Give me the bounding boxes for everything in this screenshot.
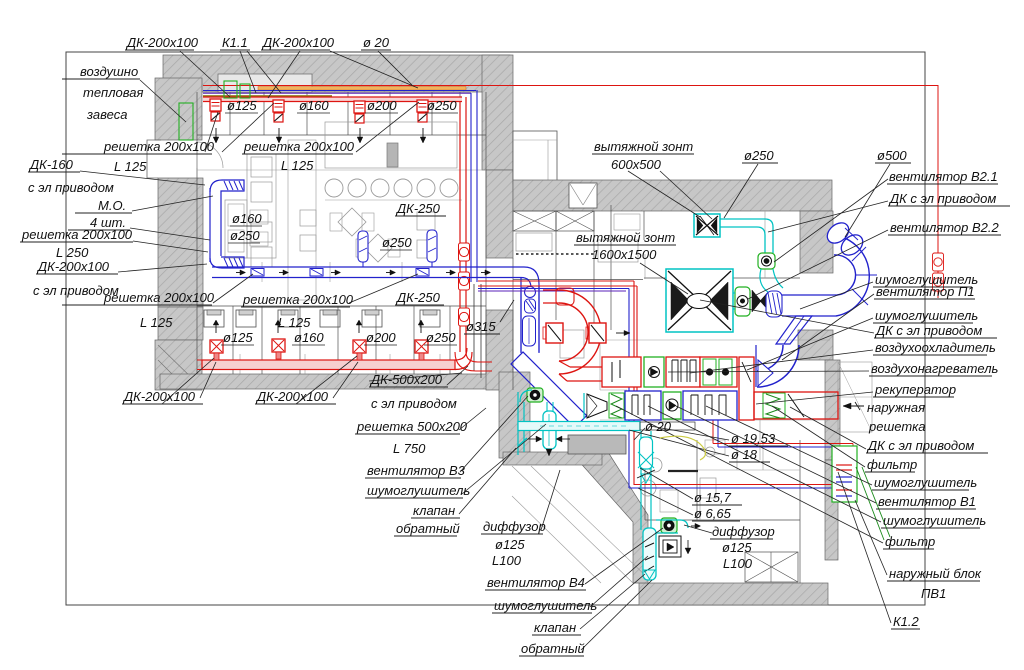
- flex hatched capsule on blue vertical duct: [525, 299, 536, 313]
- wall: door recess in right block top band: [569, 183, 597, 208]
- leader DK-500x200: [447, 366, 468, 385]
- red riser round dampers: [459, 243, 470, 261]
- check valve cyan mid: [641, 474, 651, 483]
- heat exchanger red box with fins: [666, 357, 700, 387]
- duct cyan below fan B2.1: [760, 269, 783, 292]
- svg-text:К1.2: К1.2: [893, 614, 920, 629]
- leader silencer B3: [462, 424, 546, 494]
- leader fan B3: [460, 396, 528, 472]
- recuperator red box to outside: [754, 392, 838, 419]
- wall: right wall lower1: [825, 360, 840, 460]
- svg-text:ø160: ø160: [232, 211, 262, 226]
- svg-text:шумоглушитель: шумоглушитель: [875, 308, 978, 323]
- ramp diagonal lines: [512, 466, 633, 583]
- stair cross box: [745, 552, 798, 582]
- air valve red kitchen 2: [589, 323, 606, 343]
- svg-text:М.О.: М.О.: [98, 198, 126, 213]
- blue silencer capsules on vertical duct: [523, 316, 536, 346]
- equipment room inner lines: [759, 420, 761, 460]
- duct cyan vertical to B4: [640, 431, 642, 530]
- wall: band above stairs: [503, 452, 602, 465]
- svg-text:решетка 200х100: решетка 200х100: [243, 139, 355, 154]
- svg-text:ø 15,7: ø 15,7: [694, 490, 732, 505]
- leader DK-160 to blue elbow: [80, 171, 205, 185]
- wall: bottom band of right block: [639, 583, 828, 605]
- blue silencer capsule 1: [358, 231, 368, 262]
- duct violet kitchen line: [478, 290, 626, 292]
- duct red riser right pair: [459, 101, 461, 352]
- dim ticks bottom duct: [239, 354, 241, 374]
- silencer cyan capsule mid: [640, 437, 653, 469]
- svg-text:ДК-200х100: ДК-200х100: [261, 35, 335, 50]
- pipe yellow curve: [660, 436, 706, 460]
- leader silencer B4: [590, 556, 648, 607]
- duct blue hall horizontal main: [212, 266, 524, 268]
- duct cyan wide horizontal: [518, 422, 640, 431]
- chairs around diamond tables: [330, 213, 342, 231]
- leader M.O. to duct: [132, 196, 213, 211]
- partition between hall and lower rooms: [197, 305, 486, 307]
- refrigerant lines to outdoor unit upper: [712, 420, 714, 444]
- leader valve B4 2: [581, 580, 652, 650]
- vestibule protrusion: [513, 131, 557, 184]
- air curtain green rect: [179, 103, 193, 140]
- duct blue big arc outside: [833, 235, 869, 316]
- svg-text:решетка 200х100: решетка 200х100: [242, 292, 354, 307]
- kitchen equipment rects: [516, 233, 552, 251]
- wall: bottom-left corner of left block: [155, 340, 202, 390]
- booth seating col2: [288, 140, 316, 300]
- leader DK lower right: [790, 407, 866, 449]
- lower right rooms partitions: [644, 440, 646, 520]
- air valve red kitchen 1: [546, 323, 563, 343]
- refrigerant lines to outdoor unit lower: [634, 484, 853, 486]
- duct blue branch down to fan P1: [776, 316, 812, 344]
- fan B3 green motor: [527, 388, 543, 402]
- wc fixture lower right: [648, 458, 662, 472]
- air valve red bottom 3 (o200): [353, 340, 366, 353]
- svg-text:ø 19,53: ø 19,53: [731, 431, 776, 446]
- svg-text:ДК-200х100: ДК-200х100: [255, 389, 329, 404]
- wall: stair block dark rect: [568, 435, 626, 454]
- silencer blue box 1: [625, 391, 661, 420]
- leader outdoor block: [855, 500, 887, 575]
- duct DK-200x100 red supply top horizontal: [203, 97, 462, 102]
- leaders o15 o6: [640, 468, 693, 499]
- blue silencer capsule 2: [427, 230, 437, 262]
- wall: left band wide: [158, 178, 203, 307]
- leader grille 200x100 left2: [133, 241, 208, 252]
- svg-text:ДК с эл приводом: ДК с эл приводом: [874, 323, 982, 338]
- svg-text:воздушно: воздушно: [80, 64, 138, 79]
- bar counter: [325, 122, 457, 168]
- duct blue vertical to machine room: [520, 290, 522, 353]
- interior partition lines top rooms: [197, 134, 486, 136]
- svg-text:L 125: L 125: [114, 159, 147, 174]
- svg-text:ø125: ø125: [223, 330, 253, 345]
- svg-text:ø125: ø125: [227, 98, 257, 113]
- wall: central band upper: [486, 170, 513, 258]
- leader o250 to cyan duct: [724, 164, 758, 218]
- leader fan B2.2: [748, 230, 888, 299]
- air valve red bottom 2 (o160): [272, 339, 285, 352]
- svg-text:вентилятор В4: вентилятор В4: [487, 575, 585, 590]
- svg-text:ø250: ø250: [744, 148, 774, 163]
- leader o500 to arc: [845, 164, 890, 237]
- wall: bottom band of left block: [160, 374, 510, 389]
- svg-text:L 125: L 125: [278, 315, 311, 330]
- leader DK-200x100 left: [118, 264, 207, 272]
- svg-text:наружный блок: наружный блок: [889, 566, 982, 581]
- duct blue diagonal to AHU: [511, 352, 587, 428]
- kitchen partitions right block: [512, 258, 514, 390]
- heating pipe olive line: [203, 95, 332, 97]
- duct blue line top: [203, 90, 476, 92]
- silencer cyan capsule B4: [643, 528, 656, 580]
- svg-text:ø160: ø160: [294, 330, 324, 345]
- door lintel thick line: [668, 470, 698, 472]
- flex connector hatched before arc: [766, 291, 782, 317]
- flow arrows on hall duct: [236, 272, 245, 274]
- svg-text:клапан: клапан: [534, 620, 576, 635]
- leader valve B4 1: [580, 574, 645, 629]
- svg-text:ø250: ø250: [426, 330, 456, 345]
- leader o315: [500, 300, 514, 322]
- right rooms extra fixtures: [705, 440, 725, 454]
- red riser K1.1 right side circles: [933, 253, 944, 271]
- air valve red bottom 4 (o250): [415, 340, 428, 353]
- svg-text:L100: L100: [492, 553, 522, 568]
- wc fixtures lower rooms: [204, 310, 224, 327]
- wall: left entrance blob: [155, 78, 202, 140]
- wall: right wall upper: [800, 211, 833, 273]
- svg-text:ø 6,65: ø 6,65: [694, 506, 732, 521]
- wall: diagonal wall right block: [576, 441, 648, 583]
- leaders mid grille labels top: [222, 103, 274, 152]
- svg-text:ø200: ø200: [366, 330, 396, 345]
- svg-text:с эл приводом: с эл приводом: [28, 180, 114, 195]
- svg-text:решетка 200х100: решетка 200х100: [103, 139, 215, 154]
- leader DK top right: [768, 201, 888, 232]
- svg-text:фильтр: фильтр: [885, 534, 935, 549]
- blue duct dampers on hall run: [251, 269, 264, 277]
- duct blue kitchen line: [478, 288, 629, 290]
- blue arc radial joints: [852, 247, 866, 261]
- svg-text:обратный: обратный: [396, 521, 460, 536]
- bar stools circles: [325, 179, 343, 197]
- small table row left: [250, 210, 268, 224]
- svg-text:ø500: ø500: [877, 148, 907, 163]
- leader left grille to damper: [205, 112, 218, 152]
- leader lines top labels: [180, 51, 230, 97]
- svg-text:ДК-250: ДК-250: [395, 201, 441, 216]
- svg-text:шумоглушитель: шумоглушитель: [874, 475, 977, 490]
- chairs near tables: [417, 212, 435, 230]
- duct blue riser right pair: [470, 93, 472, 282]
- svg-text:ДК-200х100: ДК-200х100: [125, 35, 199, 50]
- svg-text:с эл приводом: с эл приводом: [371, 396, 457, 411]
- svg-text:шумоглушитель: шумоглушитель: [883, 513, 986, 528]
- fan B2.2 green motor: [735, 287, 750, 316]
- air valve red top 4 (o250): [417, 100, 428, 112]
- svg-text:ДК-200х100: ДК-200х100: [122, 389, 196, 404]
- outside air arrow: [843, 405, 864, 407]
- duct continuation black outline: [640, 422, 695, 430]
- silencer cyan capsule B3: [543, 411, 556, 449]
- svg-text:ДК-250: ДК-250: [395, 290, 441, 305]
- svg-text:ø200: ø200: [367, 98, 397, 113]
- svg-text:вытяжной зонт: вытяжной зонт: [594, 139, 693, 154]
- svg-text:ø315: ø315: [466, 319, 496, 334]
- svg-text:К1.1: К1.1: [222, 35, 248, 50]
- leader K1.2: [838, 472, 891, 623]
- duct violet line top: [203, 92, 471, 94]
- svg-text:L 750: L 750: [393, 441, 426, 456]
- svg-text:вентилятор В2.2: вентилятор В2.2: [890, 220, 999, 235]
- svg-text:шумоглушитель: шумоглушитель: [494, 598, 597, 613]
- exhaust hood 1600x1500 big: [666, 269, 733, 332]
- air valve red top 1 (o125): [210, 99, 221, 111]
- leader silencer right1: [800, 282, 873, 309]
- air valve red top 2 (o160): [273, 100, 284, 112]
- leader DK mid right: [700, 300, 874, 333]
- fan B3 cyan casing: [520, 390, 532, 402]
- leaders mid grille labels row2: [213, 274, 253, 303]
- duct red pair kitchen horizontal upper: [478, 280, 634, 282]
- svg-text:воздухонагреватель: воздухонагреватель: [871, 361, 999, 376]
- heating pipe orange band: [258, 87, 466, 91]
- svg-text:диффузор: диффузор: [483, 519, 546, 534]
- svg-text:ø 20: ø 20: [645, 419, 672, 434]
- wall recess in top band: [218, 74, 312, 92]
- svg-text:тепловая: тепловая: [83, 85, 144, 100]
- leader silencer right2: [747, 318, 873, 370]
- outdoor unit PV1 green box: [832, 446, 857, 502]
- duct red bottom horizontal with fill: [202, 360, 455, 370]
- air valve red top 3 (o200): [354, 101, 365, 113]
- svg-text:решетка: решетка: [868, 419, 926, 434]
- right room small sink circle: [705, 447, 715, 457]
- door arc left room: [197, 142, 223, 168]
- B3 flow arrows: [536, 436, 542, 442]
- wall: central band lower: [486, 310, 513, 390]
- svg-text:клапан: клапан: [413, 503, 455, 518]
- wall: right wall mid: [798, 330, 833, 360]
- leaders bottom DK labels: [200, 362, 216, 398]
- leader air heater: [668, 371, 869, 372]
- booth seating left: [247, 154, 276, 258]
- leader 4sht: [130, 228, 210, 240]
- wall: top-right corner of left block: [482, 55, 513, 170]
- kitchen shelving crossed boxes: [513, 211, 556, 231]
- diffuser square B4: [659, 536, 681, 557]
- wall: top band of left block: [163, 55, 510, 92]
- leader fan B4: [585, 528, 663, 584]
- svg-text:решетка 200х100: решетка 200х100: [21, 227, 133, 242]
- dining tables diamonds: [338, 208, 366, 236]
- site boundary line: [66, 52, 925, 605]
- kitchen wall line: [513, 279, 643, 281]
- flow arrows below top dampers: [215, 128, 217, 142]
- flow arrow small near riser: [616, 332, 630, 334]
- svg-text:вытяжной зонт: вытяжной зонт: [576, 230, 675, 245]
- exhaust hood 600x500 small: [694, 214, 720, 237]
- kitchen dotted serving line: [516, 253, 594, 255]
- fan P1 blue arc: [757, 345, 799, 387]
- leader filter 1: [772, 406, 865, 467]
- red tall connection box: [739, 357, 754, 420]
- svg-text:ø250: ø250: [382, 235, 412, 250]
- leader silencer 3: [706, 406, 872, 485]
- blue elbow down to B3: [521, 267, 539, 352]
- svg-text:ДК-160: ДК-160: [28, 157, 74, 172]
- wall: top band of right block: [513, 180, 832, 211]
- svg-text:ДК-500х200: ДК-500х200: [369, 372, 443, 387]
- green rects in top wall: [224, 81, 237, 98]
- leader fan P1: [782, 294, 874, 360]
- leader valve B3: [459, 448, 516, 514]
- toilet circle bottom room: [640, 480, 656, 496]
- svg-text:ДК с эл приводом: ДК с эл приводом: [888, 191, 996, 206]
- leader hood 1600x1500: [640, 263, 688, 294]
- duct blue horizontal to outside arc: [782, 294, 837, 296]
- leader fan B1: [676, 406, 876, 503]
- svg-text:ø 20: ø 20: [363, 35, 390, 50]
- dim ticks hall duct: [261, 262, 263, 282]
- svg-text:ø250: ø250: [427, 98, 457, 113]
- leader air cooler: [690, 350, 873, 373]
- svg-text:L 125: L 125: [140, 315, 173, 330]
- column dark rect: [387, 143, 398, 167]
- svg-text:завеса: завеса: [86, 107, 127, 122]
- flow arrows near B4: [691, 525, 700, 527]
- svg-text:вентилятор П1: вентилятор П1: [876, 284, 975, 299]
- pipe K1.1 red line top: [203, 86, 938, 299]
- corridor duct outlines black: [473, 284, 475, 371]
- flow arrows above bottom dampers: [215, 321, 217, 333]
- svg-text:ø125: ø125: [495, 537, 525, 552]
- svg-text:воздухоохладитель: воздухоохладитель: [875, 340, 996, 355]
- blue elbow bottom with flex: [210, 257, 244, 268]
- blue branch risers to capsules: [362, 262, 364, 267]
- red box with two motors: [700, 357, 737, 387]
- exhaust cone transition: [587, 394, 607, 418]
- leader air curtain: [140, 80, 186, 122]
- silencer blue box 2: [683, 391, 737, 420]
- red big loop duct into AHU: [559, 290, 601, 374]
- red duct elbow bottom of riser to kitchen: [455, 352, 492, 371]
- booth sofas left room extra: [225, 200, 247, 258]
- svg-text:ДК с эл приводом: ДК с эл приводом: [866, 438, 974, 453]
- interior line below top rooms: [197, 169, 486, 171]
- svg-text:фильтр: фильтр: [867, 457, 917, 472]
- fan unit green in red row: [644, 357, 664, 387]
- leader filter 2: [616, 406, 883, 543]
- cone transition after B2.2: [752, 290, 761, 312]
- svg-text:600х500: 600х500: [611, 157, 662, 172]
- air valve red bottom 1 (o125): [210, 340, 223, 353]
- svg-text:ø125: ø125: [722, 540, 752, 555]
- duct blue angled segments top: [823, 219, 852, 247]
- leader o20: [634, 428, 645, 440]
- svg-text:вентилятор В2.1: вентилятор В2.1: [889, 169, 998, 184]
- svg-text:обратный: обратный: [521, 641, 585, 656]
- leaders hood 600x500: [628, 171, 700, 217]
- svg-text:наружная: наружная: [867, 400, 925, 415]
- svg-text:ПВ1: ПВ1: [921, 586, 946, 601]
- svg-text:ДК-200х100: ДК-200х100: [36, 259, 110, 274]
- red duct stub left end: [197, 359, 202, 361]
- red risers mid kitchen vertical: [633, 281, 635, 485]
- blue elbow top with flex: [210, 180, 244, 192]
- fan B4 green motor: [661, 518, 677, 533]
- leader silencer 4: [648, 406, 881, 522]
- check valve B4: [644, 570, 655, 579]
- svg-text:ø 18: ø 18: [731, 447, 758, 462]
- wall edge step left: [147, 140, 161, 178]
- kitchen partition right of hood: [764, 211, 766, 278]
- stair lines in corner block: [158, 345, 199, 385]
- svg-text:L 125: L 125: [281, 158, 314, 173]
- svg-text:L100: L100: [723, 556, 753, 571]
- svg-text:вентилятор В3: вентилятор В3: [367, 463, 466, 478]
- leader diffuser left: [541, 470, 560, 530]
- flex connector green zigzag 1: [609, 393, 624, 418]
- leader recuperator: [756, 392, 873, 404]
- svg-text:ø250: ø250: [230, 228, 260, 243]
- svg-text:рекуператор: рекуператор: [874, 382, 956, 397]
- duct cyan from small hood: [720, 219, 773, 253]
- svg-text:L 250: L 250: [56, 245, 89, 260]
- svg-text:1600х1500: 1600х1500: [592, 247, 657, 262]
- wall: central band below: [499, 372, 530, 458]
- leader diffuser right: [684, 525, 712, 533]
- green filter diagonal right: [856, 467, 884, 540]
- svg-text:шумоглушитель: шумоглушитель: [367, 483, 470, 498]
- lower rooms partitions: [232, 306, 234, 374]
- svg-text:диффузор: диффузор: [712, 524, 775, 539]
- flex connector green zigzag 2: [763, 393, 785, 418]
- red duct elbow up at right: [455, 348, 472, 370]
- round damper on blue vertical duct: [525, 287, 536, 298]
- svg-text:вентилятор В1: вентилятор В1: [878, 494, 976, 509]
- leader grille 500x200: [459, 408, 486, 430]
- blue risers mid kitchen vertical: [628, 289, 630, 489]
- kitchen bench lines: [644, 254, 646, 279]
- AHU supply train upper red row: [602, 357, 641, 387]
- fan B2.1 green motor: [758, 253, 775, 269]
- cyan stub hood to fan: [733, 292, 735, 294]
- fan unit green lower row: [663, 392, 681, 419]
- svg-text:решетка 200х100: решетка 200х100: [103, 290, 215, 305]
- svg-text:ø160: ø160: [299, 98, 329, 113]
- duct cyan B4 elbow: [656, 520, 688, 533]
- wall: left band lower: [158, 307, 203, 340]
- leaders o19 o18: [650, 426, 729, 440]
- small cyan fan cross mid: [638, 452, 654, 468]
- svg-text:решетка 500х200: решетка 500х200: [356, 419, 468, 434]
- leader fan B2.1: [774, 179, 888, 262]
- duct blue vertical left pair: [209, 188, 211, 262]
- wall: right wall lower2: [825, 460, 838, 560]
- red loop inner corner box: [556, 288, 574, 305]
